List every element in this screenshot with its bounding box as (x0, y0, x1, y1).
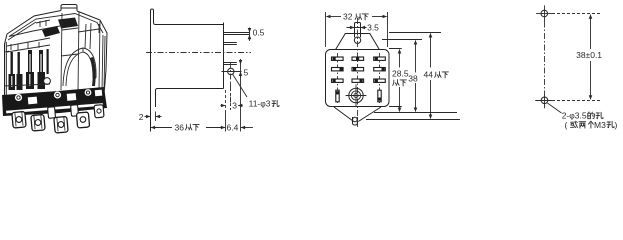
pin blade back stub 1 (48, 107, 56, 119)
pin blade 2 (31, 114, 45, 131)
pin blade 1 (12, 111, 26, 128)
pin blade 4 (76, 112, 89, 128)
bottom tab hole (353, 117, 358, 122)
base socket holes (6, 89, 103, 113)
pin stub right (94, 105, 104, 118)
hanger tab (355, 23, 361, 38)
svg-text:28.5: 28.5 (392, 69, 409, 79)
svg-text:32: 32 (343, 12, 353, 22)
dim 5 (240, 63, 242, 132)
left contact stacks (11, 49, 49, 74)
top hole (541, 10, 548, 17)
column centerlines (338, 18, 380, 127)
vertical centerline (544, 22, 546, 93)
svg-text:0.5: 0.5 (253, 28, 265, 38)
top face marks (36, 20, 50, 27)
bottom hole (541, 97, 548, 104)
socket circle mid (44, 78, 51, 85)
dim 32 or less (326, 12, 388, 47)
svg-text:44: 44 (424, 69, 434, 79)
dim 3.5 tab width (347, 27, 367, 29)
contact stack tips (4, 42, 50, 86)
dark component on top face (42, 26, 60, 37)
svg-text:11-φ3: 11-φ3 (249, 99, 271, 109)
tab hole (354, 37, 360, 43)
dim 2 flange thickness (155, 112, 157, 122)
pin 2 (224, 43, 237, 45)
dim 38 (415, 41, 417, 73)
dark mass under tab (58, 18, 78, 29)
dim 3 (226, 83, 231, 110)
contact stack slots (12, 54, 41, 87)
relay top tab (61, 5, 77, 12)
centerline (146, 52, 251, 54)
dim 28.5 or less (399, 50, 401, 68)
center screw circles (349, 88, 363, 102)
contact stack feet (9, 72, 46, 90)
svg-text:): ) (615, 120, 618, 130)
svg-text:38±0.1: 38±0.1 (576, 50, 602, 60)
pin 3 (224, 63, 237, 65)
relay cover outline (5, 11, 108, 99)
svg-text:M3: M3 (594, 120, 606, 130)
bottom V and tab (334, 107, 381, 122)
right face inner lines (99, 24, 105, 92)
svg-text:38: 38 (408, 73, 418, 83)
svg-text:2: 2 (139, 112, 144, 122)
svg-text:(: ( (565, 120, 568, 130)
leader to hole label (547, 103, 561, 113)
pin blade back stub 2 (71, 105, 79, 117)
svg-text:3.5: 3.5 (367, 23, 379, 33)
leader 11-phi3 (233, 75, 247, 98)
dim 38 +-0.1 (590, 15, 592, 49)
svg-text:3: 3 (232, 101, 237, 111)
coil dark crescent (90, 57, 96, 86)
dim 36 or less (225, 110, 227, 132)
mounting hole in side view (228, 68, 234, 74)
svg-text:6.4: 6.4 (227, 123, 239, 133)
dim 0.5 pin thickness (249, 28, 251, 42)
dim 44 or less (430, 34, 432, 68)
pin blades grid (332, 57, 386, 102)
body right edge (223, 23, 225, 89)
pin blade 3 (54, 116, 68, 133)
svg-text:5: 5 (244, 68, 249, 78)
right extension lines (366, 33, 460, 120)
cover top face inner line (9, 14, 103, 37)
pin 1 (224, 33, 250, 35)
cover right panel frame (61, 12, 100, 92)
body outline (326, 50, 390, 107)
cover ledge lines (7, 22, 50, 52)
svg-text:36: 36 (175, 123, 185, 133)
trapezoid top (336, 34, 380, 50)
base band (2, 87, 107, 116)
inner vertical details right (85, 23, 91, 49)
flange plate (151, 9, 224, 132)
coil arcs (63, 48, 96, 86)
